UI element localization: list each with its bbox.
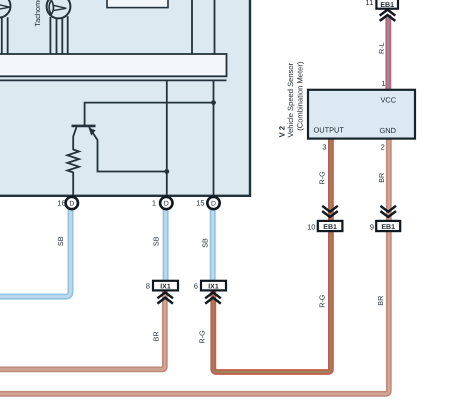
connector EB1 pin 11 chevrons: [380, 10, 396, 21]
gauge (left, cut off): [0, 0, 11, 18]
wire vertical into bar A: [191, 0, 193, 54]
connector EB1 pin 10 chevrons: [322, 206, 338, 217]
svg-text:11: 11: [366, 0, 374, 7]
svg-text:BR: BR: [151, 331, 160, 341]
svg-text:16: 16: [57, 199, 65, 208]
svg-text:Vehicle Speed Sensor: Vehicle Speed Sensor: [286, 62, 295, 137]
V2 vehicle speed sensor box: [308, 90, 415, 139]
svg-text:9: 9: [370, 222, 374, 231]
combination meter block: [0, 0, 250, 196]
connector IX1 pin 6 box: [194, 281, 226, 291]
BR wire from connector IX1 pin 8: [0, 292, 165, 370]
svg-text:6: 6: [194, 281, 198, 290]
svg-text:EB1: EB1: [381, 224, 395, 231]
connector EB1 pin 10 box: [307, 221, 342, 232]
connector IX1 pin 8 chevrons: [157, 292, 173, 303]
BR wire from V2 GND through EB1 pin 9: [0, 138, 389, 394]
wire base line: [85, 103, 214, 126]
svg-text:VCC: VCC: [381, 95, 397, 104]
wire to pin 15: [213, 80, 215, 196]
svg-text:BR: BR: [376, 296, 385, 306]
svg-text:IX1: IX1: [208, 283, 219, 290]
connector EB1 pin 11 box: [366, 0, 398, 9]
R-L wire from EB1 pin 11 to V2 VCC: [385, 15, 391, 89]
pin 1: [152, 197, 173, 209]
svg-text:1: 1: [152, 199, 156, 208]
svg-text:R-G: R-G: [317, 294, 326, 308]
wire vertical into bar B: [214, 0, 216, 54]
connector EB1 pin 9 box: [370, 221, 400, 232]
svg-text:R-G: R-G: [318, 171, 327, 185]
svg-text:SB: SB: [56, 236, 65, 246]
svg-text:10: 10: [307, 222, 315, 231]
svg-text:8: 8: [146, 281, 150, 290]
pin 16: [57, 197, 78, 209]
svg-text:D: D: [164, 201, 169, 208]
connector IX1 pin 6 chevrons: [205, 292, 221, 303]
svg-text:1: 1: [381, 79, 385, 88]
gauge Tachometer legs: [50, 16, 67, 54]
gauge left legs: [2, 17, 8, 55]
transistor Q1 left lead: [73, 127, 76, 150]
node junction on pin15 wire: [211, 100, 216, 105]
resistor R1: [67, 150, 79, 197]
svg-text:SB: SB: [200, 238, 209, 248]
svg-text:EB1: EB1: [380, 2, 394, 9]
svg-text:BR: BR: [377, 173, 386, 183]
wire horizontal under bar: [0, 79, 227, 81]
svg-text:15: 15: [196, 199, 204, 208]
svg-text:R-L: R-L: [377, 42, 386, 54]
internal bus bar: [0, 54, 227, 76]
wire to pin 1: [166, 80, 168, 196]
svg-text:GND: GND: [380, 126, 396, 135]
transistor Q1 base bar: [72, 125, 96, 128]
svg-text:SB: SB: [151, 236, 160, 246]
SB wire from pin 1: [163, 209, 169, 282]
svg-text:2: 2: [381, 143, 385, 152]
svg-text:D: D: [69, 201, 74, 208]
SB wire from pin 15: [210, 209, 216, 282]
transistor Q1 right lead with arrow: [89, 127, 166, 172]
internal white box (top, cut off): [107, 0, 168, 8]
svg-text:OUTPUT: OUTPUT: [314, 125, 345, 134]
connector EB1 pin 9 chevrons: [380, 206, 396, 217]
svg-text:IX1: IX1: [160, 283, 171, 290]
SB wire from pin 16: [0, 209, 71, 297]
svg-text:D: D: [211, 201, 216, 208]
connector IX1 pin 8 box: [146, 281, 178, 291]
node junction collector: [164, 169, 169, 174]
svg-text:EB1: EB1: [323, 224, 337, 231]
pin 15: [196, 197, 219, 209]
svg-text:3: 3: [322, 142, 326, 151]
svg-text:R-G: R-G: [198, 330, 207, 344]
gauge Tachometer: [47, 0, 71, 18]
svg-text:Tachometer: Tachometer: [33, 0, 42, 27]
R-G wire from connector IX1 pin 6 to EB1 pin 10 and V2: [213, 138, 331, 372]
svg-text:(Combination Meter): (Combination Meter): [296, 61, 305, 131]
